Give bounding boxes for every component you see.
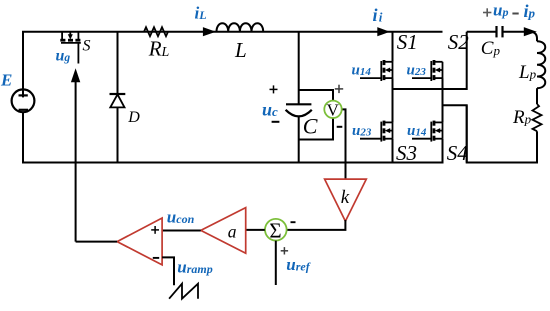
transistor S1 bbox=[381, 60, 392, 81]
wire: S2 source to S4 drain bbox=[442, 78, 444, 122]
svg-text:Lp: Lp bbox=[518, 62, 537, 83]
summer Σ bbox=[265, 219, 287, 241]
label + (comparator) bbox=[151, 226, 159, 234]
wire: u_ref input bbox=[275, 241, 277, 285]
svg-text:iL: iL bbox=[195, 4, 207, 23]
wire: S1 drain from rail bbox=[392, 32, 394, 62]
svg-text:ucon: ucon bbox=[167, 208, 195, 227]
svg-text:u23: u23 bbox=[352, 123, 372, 139]
label + (summer) bbox=[281, 247, 288, 254]
svg-text:up: up bbox=[493, 1, 508, 20]
wire: node A (S1 source to load tap) bbox=[393, 32, 467, 89]
wire: top rail from E to bridge bbox=[23, 32, 443, 90]
svg-text:S1: S1 bbox=[397, 30, 418, 54]
svg-text:D: D bbox=[127, 109, 140, 126]
wire: k output to summer bbox=[287, 220, 346, 230]
wire: bottom bus bbox=[22, 162, 444, 164]
transistor S2 bbox=[431, 60, 442, 81]
svg-text:RL: RL bbox=[148, 36, 170, 60]
gain a triangle bbox=[201, 208, 246, 254]
wire: S3 source to bus bbox=[392, 139, 394, 163]
svg-text:k: k bbox=[341, 187, 350, 208]
wire: ramp input bbox=[162, 257, 174, 285]
svg-text:Σ: Σ bbox=[269, 218, 281, 242]
sawtooth waveform symbol bbox=[169, 284, 198, 299]
wire: load bottom return bbox=[467, 105, 537, 162]
label - (u_p) bbox=[512, 13, 518, 15]
label + (voltmeter) bbox=[335, 85, 343, 93]
gate drive arrow (u_g) bbox=[71, 68, 80, 241]
gate lead S2 bbox=[412, 77, 431, 79]
label - (voltmeter) bbox=[337, 126, 343, 128]
voltmeter V bbox=[324, 101, 341, 118]
current arrow i_L bbox=[203, 27, 216, 36]
gate lead S3 bbox=[360, 138, 381, 140]
label - (u_c) bbox=[272, 121, 280, 123]
capacitor C with leads bbox=[286, 32, 312, 163]
label - (comparator) bbox=[153, 257, 159, 259]
comparator triangle bbox=[117, 218, 162, 265]
transistor S3 bbox=[381, 121, 392, 142]
gain k triangle bbox=[325, 179, 367, 221]
inductor L_p bbox=[537, 41, 545, 88]
svg-text:u14: u14 bbox=[407, 123, 427, 139]
transistor S (buck switch) bbox=[60, 32, 81, 64]
wire: summer to gain a bbox=[246, 229, 265, 231]
current arrow i_i bbox=[377, 27, 390, 36]
svg-text:ug: ug bbox=[56, 47, 71, 64]
transistor S4 bbox=[431, 121, 442, 142]
inductor L bbox=[217, 23, 264, 31]
wire: comparator output to gate line bbox=[76, 241, 118, 243]
svg-text:Cp: Cp bbox=[481, 38, 501, 59]
svg-text:u14: u14 bbox=[352, 63, 372, 79]
wire: S4 source to bus end bbox=[442, 139, 444, 164]
wire: E bottom to bus bbox=[22, 112, 24, 164]
svg-text:a: a bbox=[228, 222, 237, 242]
label + (u_p) bbox=[483, 8, 491, 16]
svg-text:E: E bbox=[0, 71, 12, 90]
svg-text:L: L bbox=[234, 38, 247, 62]
svg-text:S2: S2 bbox=[448, 30, 470, 54]
svg-text:V: V bbox=[327, 100, 340, 119]
svg-text:uref: uref bbox=[286, 255, 310, 274]
wire: a output to comparator bbox=[162, 230, 201, 232]
svg-text:uc: uc bbox=[262, 99, 278, 119]
wire: L_p to R_p bbox=[536, 88, 538, 104]
wire: load top bbox=[467, 32, 537, 42]
svg-text:S: S bbox=[83, 38, 91, 55]
label + (u_c) bbox=[270, 85, 278, 93]
svg-text:ii: ii bbox=[373, 5, 383, 25]
gate lead S1 bbox=[360, 77, 381, 79]
wire: node B stub to load return bbox=[443, 105, 467, 162]
svg-text:C: C bbox=[303, 113, 318, 138]
capacitor C_p bbox=[497, 26, 503, 37]
diode D bbox=[110, 32, 126, 163]
svg-text:Rp: Rp bbox=[512, 107, 532, 128]
svg-text:uramp: uramp bbox=[177, 257, 212, 276]
resistor R_L bbox=[144, 27, 168, 36]
label - (summer) bbox=[291, 221, 296, 223]
source E bbox=[12, 89, 35, 112]
gate lead S4 bbox=[412, 138, 431, 140]
voltmeter loop wires bbox=[299, 90, 346, 179]
svg-text:S4: S4 bbox=[447, 141, 469, 165]
svg-text:ip: ip bbox=[524, 1, 536, 21]
wire: S3 drain bbox=[392, 89, 394, 122]
svg-text:S3: S3 bbox=[396, 141, 417, 165]
svg-text:u23: u23 bbox=[407, 63, 427, 79]
current arrow i_p bbox=[524, 27, 537, 36]
resistor R_p bbox=[533, 104, 542, 131]
